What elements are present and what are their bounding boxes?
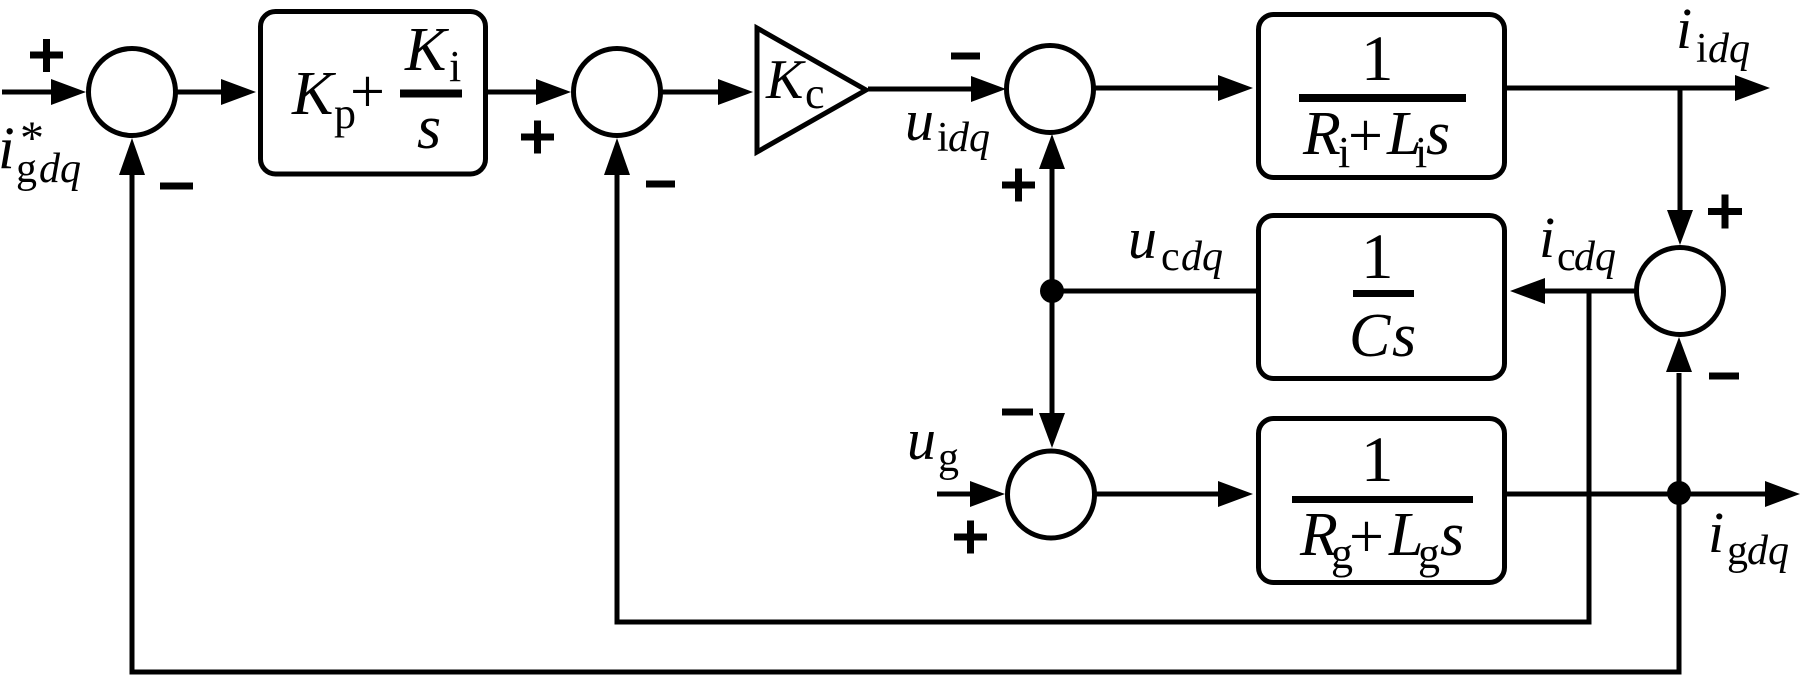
minus sign at S5 top input <box>1002 409 1033 416</box>
plus sign at S2 input <box>521 121 554 154</box>
wire S5 to Rg block <box>1094 481 1253 507</box>
minus sign at S2 feedback <box>646 181 675 188</box>
wire Kc to S3 <box>868 76 1006 102</box>
wire S3 to Ri block <box>1093 75 1253 101</box>
plus sign at S1 input <box>30 39 63 72</box>
wire u_g input into S5 <box>937 481 1005 507</box>
block 1/(Rg+Lg s) <box>1259 419 1505 583</box>
svg-text:s: s <box>1440 501 1464 569</box>
label 1/(Ri+Li s) <box>1299 23 1466 177</box>
svg-text:C: C <box>1349 302 1391 370</box>
svg-text:1: 1 <box>1361 221 1394 293</box>
wire PI block to S2 <box>488 79 571 105</box>
svg-text:i: i <box>1708 500 1724 565</box>
svg-text:s: s <box>417 94 441 162</box>
node label u_g <box>907 407 959 481</box>
minus sign at S4 bottom input <box>1709 373 1739 380</box>
plus sign at S3 bottom input <box>1002 169 1035 202</box>
wire Ri block output to i_idq arrow <box>1507 75 1770 101</box>
svg-text:u: u <box>1128 206 1157 271</box>
svg-text:K: K <box>291 60 337 128</box>
svg-text:i: i <box>1539 205 1555 270</box>
svg-text:u: u <box>905 88 934 153</box>
svg-text:+: + <box>1348 102 1383 170</box>
node label i_gdq <box>1708 500 1789 574</box>
node label u_cdq <box>1128 206 1223 280</box>
svg-text:dq: dq <box>948 115 990 161</box>
svg-text:dq: dq <box>1747 528 1789 574</box>
svg-text:1: 1 <box>1361 424 1394 496</box>
svg-text:K: K <box>404 16 450 84</box>
label Kp+Ki/s <box>291 16 462 162</box>
wire S4 output left to Cs block (i_cdq) <box>1510 278 1636 304</box>
block 1/(Ri+Li s) <box>1259 15 1505 178</box>
svg-text:dq: dq <box>39 146 81 192</box>
label Kc <box>765 49 825 118</box>
summing junction S1 <box>89 49 176 136</box>
label 1/Cs <box>1349 221 1416 370</box>
svg-text:dq: dq <box>1708 26 1750 72</box>
wire node u_cdq down into S5 <box>1039 291 1065 448</box>
wire S2 to Kc <box>660 79 753 105</box>
summing junction S3 <box>1007 46 1094 133</box>
svg-text:dq: dq <box>1574 234 1616 280</box>
svg-text:+: + <box>1349 503 1384 571</box>
plus sign at S4 top input <box>1708 195 1742 229</box>
block 1/Cs <box>1259 216 1505 379</box>
gain Kc (triangle amplifier) <box>757 28 866 152</box>
svg-text:g: g <box>938 435 959 481</box>
svg-text:i: i <box>1696 26 1708 72</box>
minus sign at S1 feedback <box>160 183 193 190</box>
node i_gdq junction dot <box>1667 481 1691 505</box>
svg-text:R: R <box>1302 100 1341 168</box>
svg-text:i: i <box>0 115 15 181</box>
svg-text:g: g <box>1727 528 1748 574</box>
wire Cs block output to node u_cdq <box>1052 289 1256 294</box>
svg-text:1: 1 <box>1361 23 1394 95</box>
plus sign at S5 left input <box>954 521 987 554</box>
summing junction S5 <box>1008 451 1095 538</box>
summing junction S4 <box>1637 248 1724 335</box>
svg-text:g: g <box>16 146 37 192</box>
minus sign at S3 left input <box>951 53 980 60</box>
svg-text:g: g <box>1418 529 1440 578</box>
wire Rg block output to i_gdq arrow <box>1507 481 1800 507</box>
svg-text:i: i <box>1676 0 1692 61</box>
svg-text:c: c <box>1557 234 1576 280</box>
svg-text:c: c <box>1161 234 1180 280</box>
summing junction S2 <box>574 49 661 136</box>
svg-text:i: i <box>449 42 461 91</box>
wire node i_gdq up into S4 <box>1666 337 1692 493</box>
label 1/(Rg+Lg s) <box>1292 424 1473 578</box>
wire S1 to PI block <box>177 79 256 105</box>
svg-text:c: c <box>805 69 825 118</box>
node u_cdq junction dot <box>1040 279 1064 303</box>
node label i_idq <box>1676 0 1750 72</box>
node label i*_gdq (reference input) <box>0 112 81 192</box>
svg-text:+: + <box>350 58 385 126</box>
wire outer feedback i_gdq to S1 <box>119 138 1682 675</box>
node label i_cdq <box>1539 205 1616 280</box>
wire node u_cdq up into S3 <box>1039 134 1065 291</box>
wire branch from i_cdq line down to feedback of S2 <box>604 138 1592 625</box>
svg-text:dq: dq <box>1181 234 1223 280</box>
wire input arrow into S1 <box>2 79 86 105</box>
wire branch from i_idq down to S4 <box>1667 88 1693 245</box>
svg-text:s: s <box>1426 100 1450 168</box>
svg-text:u: u <box>907 407 936 472</box>
svg-text:K: K <box>765 49 806 111</box>
svg-text:i: i <box>937 115 949 161</box>
node label u_idq <box>905 88 990 161</box>
block PI controller Kp+Ki/s <box>261 12 486 175</box>
svg-text:s: s <box>1392 302 1416 370</box>
